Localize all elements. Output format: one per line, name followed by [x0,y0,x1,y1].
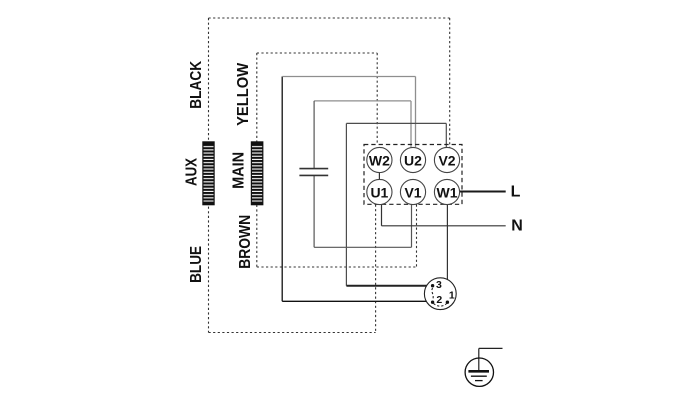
enclosure: outer dashed boundary left edge [208,18,210,333]
wire: N wire horizontal [382,225,506,227]
wire: black cable wire to plug pin 2 (horizontal) [282,300,432,302]
svg-text:U2: U2 [404,152,422,168]
wire: capacitor top lead vertical [313,101,315,168]
enclosure: outer dashed boundary lower-right edge [375,205,377,333]
svg-text:BLUE: BLUE [188,246,205,283]
plug connector circle [424,278,456,310]
svg-text:YELLOW: YELLOW [235,62,252,126]
terminal W2 [367,147,392,172]
plug pin 1 dot [446,301,449,304]
svg-text:U1: U1 [370,184,388,200]
wire: capacitor top lead to U2 (horizontal) [314,100,411,102]
svg-text:W1: W1 [437,184,458,200]
svg-text:MAIN: MAIN [230,152,247,189]
wire: gray internal wire drop to terminal U2 [415,77,417,148]
cable sheath: inner dashed boundary left edge [256,53,258,267]
plug switch dashed contact pin2-pin1 [434,304,447,307]
svg-text:V1: V1 [404,184,421,200]
svg-text:BLACK: BLACK [188,60,205,108]
plug switch dashed contact pin3-pin2 [432,288,433,300]
terminal V2 [434,147,459,172]
coil AUX winding [203,142,214,205]
coil MAIN winding [251,142,262,205]
cable sheath: inner dashed boundary bottom edge [257,266,417,268]
terminal V1 [400,179,425,204]
wire: thick wire into plug pin 3 [346,285,432,287]
terminal U2 [400,147,425,172]
ground symbol: bar 2 [471,375,487,377]
enclosure: outer dashed boundary bottom edge [209,332,376,334]
wire: capacitor top lead drop to terminal U2 [410,101,412,147]
svg-text:1: 1 [449,290,455,302]
svg-text:N: N [511,217,523,234]
wire: W1 down to plug pin 1 [446,205,448,303]
svg-text:V2: V2 [438,152,455,168]
svg-text:2: 2 [436,294,442,306]
jumper link W2 to U1 [378,173,380,180]
svg-text:BROWN: BROWN [237,215,254,269]
svg-text:W2: W2 [369,152,390,168]
wire: V2 wire drop to terminal V2 [445,123,447,148]
enclosure: outer dashed boundary (motor housing) top edge [209,17,450,19]
cable sheath: inner dashed boundary right-upper edge [376,53,378,145]
svg-text:AUX: AUX [184,158,201,186]
wire: L wire from W1 [460,191,506,193]
ground symbol: bar 3 [475,380,483,382]
terminal block dashed box [364,145,462,205]
ground wire vertical [478,348,480,371]
terminal U1 [367,179,392,204]
ground wire horizontal [479,347,503,349]
wire: N wire drop from U1 [381,205,383,226]
wire: V2 wire horizontal run [346,122,446,124]
wire: capacitor bottom lead [313,176,315,248]
plug pin 2 dot [431,301,434,304]
ground symbol: bar 1 [468,370,489,373]
svg-text:L: L [511,183,521,200]
wire: black cable wire vertical run [281,77,283,302]
ground symbol: protective earth circle [465,358,493,386]
cable sheath: inner dashed boundary top edge [257,52,377,54]
wire: riser from capacitor bottom wire to terminal V1 [411,205,413,248]
cable sheath: inner dashed boundary right-lower edge [416,205,418,268]
wire: capacitor bottom to V1 (horizontal) [314,246,411,248]
capacitor C (run capacitor) [299,169,328,176]
wire: gray internal wire from black cable to U2 (horizontal) [282,76,415,78]
enclosure: outer dashed boundary right edge [449,18,451,148]
plug pin 3 dot [431,284,434,287]
svg-text:3: 3 [436,279,442,291]
wire: V2 wire vertical run down to plug [345,123,347,285]
terminal W1 [434,179,459,204]
